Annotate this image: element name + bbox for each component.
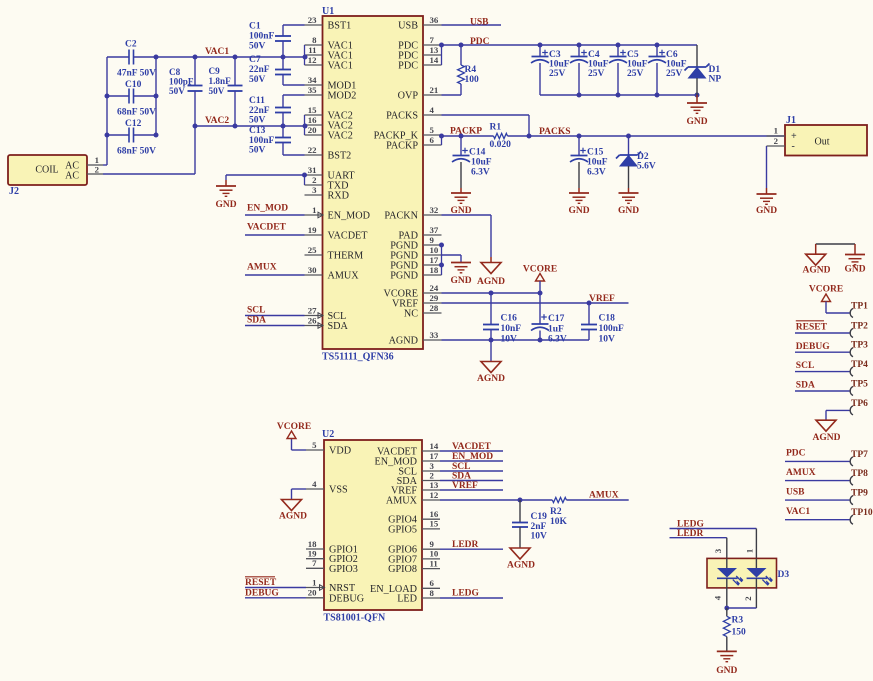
svg-text:GPIO8: GPIO8 [388,564,417,575]
svg-text:36: 36 [430,15,439,25]
junction [281,55,308,129]
junction [577,93,700,98]
node VAC2 [205,116,229,126]
node PDC [470,37,490,47]
svg-text:RESET: RESET [245,578,277,588]
svg-text:22nF: 22nF [249,65,270,75]
svg-text:C18: C18 [599,314,616,324]
ground [450,188,471,216]
resistor R2 [550,497,568,527]
svg-text:100: 100 [465,75,480,85]
U1 pin 20 (VAC2) [305,125,353,142]
svg-text:10uF: 10uF [666,60,687,70]
svg-text:3: 3 [312,185,317,195]
svg-text:PDC: PDC [786,449,806,459]
wire SDA [440,480,503,482]
node VREF [589,294,615,304]
node AMUX [786,468,816,478]
svg-text:100nF: 100nF [249,136,275,146]
ground [618,188,639,216]
svg-text:150: 150 [732,628,747,638]
svg-text:10uF: 10uF [471,158,492,168]
svg-text:68nF 50V: 68nF 50V [117,108,156,118]
svg-text:10nF: 10nF [501,324,522,334]
svg-text:7: 7 [312,558,317,568]
capacitor C5 [609,45,648,95]
svg-text:2nF: 2nF [531,522,547,532]
svg-text:3: 3 [713,548,723,553]
svg-text:VACDET: VACDET [452,442,492,452]
U1 PDC pin bracket [441,45,443,65]
power VCORE [277,422,311,439]
U1 pin 31 (UART) [305,165,356,182]
wire PACKN [442,215,492,257]
wire SCL [245,315,305,317]
ground [568,188,589,216]
U1 pin 8 (VAC1) [305,35,353,52]
svg-text:SDA: SDA [796,381,815,391]
svg-text:C13: C13 [249,126,266,136]
svg-text:USB: USB [470,18,489,28]
node RESET [796,321,828,333]
U1 pin 29 (VREF) [392,293,442,310]
svg-text:GND: GND [215,200,236,210]
wire DEBUG [245,597,306,599]
test point TP10 [785,508,873,524]
test point TP1 [826,301,868,317]
wire VSS to AGND [292,489,307,500]
svg-text:SCL: SCL [452,462,470,472]
analog ground [279,500,307,522]
U1 pin 3 (RXD) [305,185,350,202]
node LEDR [677,529,704,539]
svg-text:TP2: TP2 [851,321,868,331]
svg-text:30: 30 [308,265,317,275]
node EN_MOD [452,452,493,462]
svg-text:R2: R2 [550,507,562,517]
U1 pin 28 (NC) [404,303,442,320]
svg-text:1: 1 [745,549,755,553]
svg-text:PACKN: PACKN [384,211,418,222]
svg-text:VAC2: VAC2 [205,116,229,126]
wire J2 pin2 to VAC2 [103,126,195,174]
svg-text:100pF: 100pF [169,77,194,87]
svg-text:D1: D1 [709,65,721,75]
svg-text:SCL: SCL [247,306,265,316]
svg-text:GND: GND [568,206,589,216]
junction [439,43,464,48]
svg-text:25V: 25V [627,69,644,79]
wire EN_MOD [245,214,305,216]
svg-text:47nF 50V: 47nF 50V [117,69,156,79]
svg-text:15: 15 [430,519,439,529]
svg-text:6.3V: 6.3V [548,335,567,345]
svg-text:BST2: BST2 [328,151,352,162]
wire AMUX right [566,499,628,501]
svg-text:C7: C7 [249,55,261,65]
svg-text:VCORE: VCORE [523,265,557,275]
IC U1 TS51111_QFN36 [322,6,423,363]
svg-text:0.020: 0.020 [490,140,512,150]
svg-text:19: 19 [308,225,317,235]
svg-text:OVP: OVP [398,91,419,102]
svg-text:28: 28 [430,303,439,313]
U2 pin 18 (GPIO1) [306,539,358,556]
svg-text:AMUX: AMUX [328,271,360,282]
wire VDD to VCORE [292,439,307,451]
svg-text:VREF: VREF [452,481,478,491]
svg-text:AMUX: AMUX [247,263,277,273]
svg-text:AGND: AGND [279,512,307,522]
svg-text:33: 33 [430,330,439,340]
svg-text:LEDR: LEDR [677,529,704,539]
svg-text:20: 20 [308,125,317,135]
svg-text:DEBUG: DEBUG [329,593,365,604]
capacitor C4 [570,45,609,95]
svg-text:COIL: COIL [35,165,58,176]
svg-text:13: 13 [430,480,439,490]
U1 pin 7 (PDC) [398,35,441,52]
test point TP4 [795,360,868,376]
capacitor C10 [107,80,156,104]
junction [489,291,543,296]
svg-text:-: - [792,141,795,152]
node DEBUG [245,589,279,599]
svg-text:10uF: 10uF [549,60,570,70]
svg-text:MOD2: MOD2 [328,91,357,102]
svg-text:Out: Out [815,137,830,148]
svg-text:10K: 10K [550,517,568,527]
U1 pin 33 (AGND) [389,330,442,347]
svg-text:14: 14 [430,441,439,451]
svg-text:TP9: TP9 [851,489,868,499]
node VREF [452,481,478,491]
U1 pin 15 (VAC2) [305,105,353,122]
connector J2 COIL [8,155,103,197]
IC U2 TS81001-QFN [322,429,422,624]
svg-text:15: 15 [308,105,317,115]
junction [724,606,729,611]
svg-text:13: 13 [430,45,439,55]
junction [302,173,307,178]
junction [439,243,444,268]
test point TP3 [795,341,868,357]
capacitor C13 [249,126,305,156]
node SDA [452,472,471,482]
junction [587,301,592,306]
svg-text:TP10: TP10 [851,508,873,518]
svg-text:1uF: 1uF [548,325,564,335]
D3 pin 1 number [745,549,755,553]
svg-text:1: 1 [95,155,99,165]
ground [450,263,471,287]
C2 value 47nF 50V [117,69,156,79]
svg-text:C11: C11 [249,96,265,106]
svg-text:LEDG: LEDG [452,589,480,599]
node USB [786,487,805,497]
resistor R1 [490,123,512,151]
U2 pin 10 (GPIO7) [388,549,440,566]
wire AGND rail [442,339,590,341]
svg-text:C15: C15 [587,148,604,158]
svg-text:16: 16 [430,509,439,519]
svg-text:31: 31 [308,165,317,175]
svg-text:C17: C17 [548,314,565,324]
U1 pin 14 (PDC) [398,55,441,72]
wire LEDR to D3 [670,538,727,559]
svg-text:100nF: 100nF [249,32,275,42]
wire RESET [245,587,306,589]
svg-text:8: 8 [312,35,317,45]
analog ground [507,548,535,571]
svg-text:32: 32 [430,205,439,215]
svg-text:TP5: TP5 [851,379,868,389]
svg-text:C10: C10 [125,80,142,90]
svg-text:C1: C1 [249,22,261,32]
svg-text:C19: C19 [531,512,548,522]
svg-text:68nF 50V: 68nF 50V [117,147,156,157]
capacitor C11 [249,95,305,126]
U1 pin 26 input arrow [318,323,323,329]
node EN_MOD [247,204,288,214]
diode D1 (zener, NP) [685,45,722,95]
wire AMUX [245,274,305,276]
svg-text:10uF: 10uF [627,60,648,70]
node SDA [247,316,266,326]
U1 pin 23 (BST1) [305,15,352,32]
analog ground [803,254,831,275]
capacitor C12 [107,119,156,143]
ground [215,186,236,210]
capacitor C9 [209,57,243,126]
capacitor C15 [570,136,608,188]
svg-text:1: 1 [312,205,316,215]
svg-text:D3: D3 [778,570,790,580]
svg-text:PACKP: PACKP [386,141,418,152]
svg-text:SDA: SDA [452,472,471,482]
node VAC1 [786,507,810,517]
svg-text:TS81001-QFN: TS81001-QFN [324,613,386,624]
U1 pin 9 (PGND) [390,235,441,252]
svg-text:AGND: AGND [803,266,831,276]
capacitor C7 [249,55,305,85]
resistor R3 [723,608,746,651]
svg-text:50V: 50V [209,86,225,96]
junction [105,55,159,138]
svg-text:4: 4 [312,479,317,489]
junction [527,134,632,139]
node LEDR [452,540,479,550]
svg-text:4: 4 [430,105,435,115]
node SCL [452,462,470,472]
svg-text:GPIO3: GPIO3 [329,564,358,575]
U2 pin 12 (AMUX) [386,490,440,507]
svg-text:AMUX: AMUX [386,496,418,507]
U2 pin 19 (GPIO2) [306,549,358,566]
svg-text:26: 26 [308,315,317,325]
svg-text:11: 11 [430,558,438,568]
U2 pin 4 (VSS) [306,479,348,496]
svg-text:AMUX: AMUX [786,468,816,478]
svg-text:TS51111_QFN36: TS51111_QFN36 [322,352,394,363]
svg-text:16: 16 [308,115,317,125]
node PACKS [539,127,571,137]
wire USB [442,24,502,26]
svg-text:SDA: SDA [328,321,349,332]
svg-text:EN_MOD: EN_MOD [452,452,493,462]
svg-text:18: 18 [308,539,317,549]
svg-text:C2: C2 [125,40,137,50]
U1 pin 5 (PACKP_K) [374,125,442,142]
svg-text:10uF: 10uF [588,60,609,70]
svg-text:50V: 50V [169,86,185,96]
U1 pin 24 (VCORE) [383,283,441,300]
U2 pin 7 (GPIO3) [306,558,358,575]
svg-text:C3: C3 [549,50,561,60]
wire OVP to R4 [442,94,462,96]
node LEDG [677,520,705,530]
svg-text:C8: C8 [169,67,181,77]
svg-text:11: 11 [308,45,316,55]
svg-text:12: 12 [308,55,317,65]
U1 pin 27 input arrow [318,313,323,319]
node PDC [786,449,806,459]
svg-text:VACDET: VACDET [328,231,369,242]
svg-text:USB: USB [398,21,418,32]
svg-text:J1: J1 [786,115,796,126]
svg-text:2: 2 [312,175,317,185]
svg-text:10V: 10V [501,335,518,345]
U1 PACKP pin bracket [441,135,443,145]
U1 pin 35 (MOD2) [305,85,357,102]
U1 pin 2 (TXD) [305,175,349,192]
capacitor C17 [531,293,567,345]
svg-text:C14: C14 [469,148,486,158]
wire D3 cathodes [727,588,757,608]
capacitor C14 [452,136,492,188]
svg-text:27: 27 [308,305,317,315]
U1 VAC2 pin bracket [304,115,306,135]
node LEDG [452,589,480,599]
svg-text:50V: 50V [249,146,266,156]
svg-text:U2: U2 [322,429,334,440]
wire VCORE [442,292,541,294]
svg-text:LEDR: LEDR [452,540,479,550]
svg-text:2: 2 [95,165,100,175]
node PACKP [450,127,482,137]
U1 pin 30 (AMUX) [305,265,360,282]
svg-text:GND: GND [844,265,865,275]
svg-text:GND: GND [756,206,777,216]
svg-text:14: 14 [430,55,439,65]
wire AMUX [440,499,552,501]
svg-text:C12: C12 [125,119,142,129]
svg-text:50V: 50V [249,75,266,85]
U2 pin 3 (SCL) [398,461,440,478]
capacitor C2 [107,40,156,65]
svg-text:USB: USB [786,487,805,497]
wire C-bank right rail [155,57,157,135]
capacitor C8 [169,57,203,126]
svg-text:22nF: 22nF [249,106,270,116]
node RESET [245,577,277,588]
wire J1 pin2 to GND [766,146,768,188]
analog ground [477,340,505,384]
svg-text:12: 12 [430,490,439,500]
svg-text:25: 25 [308,245,317,255]
svg-text:EN_MOD: EN_MOD [328,211,370,222]
U1 pin 21 (OVP) [398,85,442,102]
svg-text:GND: GND [450,276,471,286]
test point TP2 [795,321,868,337]
svg-text:TP3: TP3 [851,341,868,351]
node USB [470,18,489,28]
node VAC1 [205,47,229,57]
U1 pin 10 (PGND) [390,245,441,262]
diode D2 (zener 5.6V) [616,136,656,188]
U2 pin 20 (DEBUG) [306,588,365,605]
svg-text:RXD: RXD [328,191,350,202]
svg-text:18: 18 [430,265,439,275]
svg-text:SDA: SDA [247,316,266,326]
svg-text:LEDG: LEDG [677,520,705,530]
svg-text:VAC2: VAC2 [328,131,353,142]
svg-text:R1: R1 [490,123,502,133]
svg-text:VAC1: VAC1 [328,61,353,72]
node AMUX [247,263,277,273]
svg-text:10: 10 [430,549,439,559]
ground [686,95,707,127]
U1 pin 1 (EN_MOD) [305,205,370,222]
U2 pin 8 (LED) [397,588,440,605]
svg-text:C16: C16 [501,314,518,324]
svg-text:TP7: TP7 [851,450,868,460]
junction [193,55,238,129]
svg-text:EN_MOD: EN_MOD [247,204,288,214]
U1 VAC1 pin bracket [304,45,306,65]
svg-text:DEBUG: DEBUG [796,342,830,352]
svg-text:50V: 50V [249,42,266,52]
junction [518,498,523,503]
svg-text:NC: NC [404,309,418,320]
node VACDET [247,223,287,233]
wire VACDET [440,450,503,452]
svg-text:VCORE: VCORE [277,422,311,432]
U1 pin 27 (SCL) [305,305,347,322]
test point TP9 [785,489,868,505]
svg-text:PDC: PDC [398,61,418,72]
svg-text:1: 1 [312,577,316,587]
svg-text:2: 2 [430,470,435,480]
wire VREF [440,489,503,491]
wire LEDG to D3 [670,529,757,559]
svg-text:10V: 10V [531,532,548,542]
node AMUX [589,491,619,501]
ground [756,188,777,216]
svg-text:9: 9 [430,539,435,549]
wire C-bank bottom rail [540,94,697,96]
svg-text:VAC1: VAC1 [786,507,810,517]
U2 pin 16 (GPIO4) [388,509,440,526]
U1 pin 1 input arrow [318,212,323,218]
U2 pin 1 (NRST) [306,577,356,594]
U2 pin 2 (SDA) [397,470,440,487]
svg-text:C5: C5 [627,50,639,60]
test point TP6 [826,399,868,415]
svg-text:2: 2 [774,136,779,146]
svg-text:25V: 25V [666,69,683,79]
wire PACKP [442,135,494,137]
